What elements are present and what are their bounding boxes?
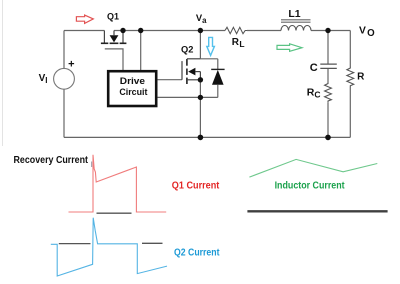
resistor RL: [225, 27, 247, 33]
wire C to RC: [327, 69, 329, 82]
svg-text:C: C: [310, 62, 318, 74]
node L1 out dot: [325, 28, 330, 33]
waveform Q2 current blue: [51, 218, 167, 276]
zero line Q2 right: [142, 242, 163, 244]
wire RC to rail: [327, 102, 329, 137]
svg-text:Inductor Current: Inductor Current: [275, 181, 346, 192]
waveform Q1 current red: [69, 155, 167, 212]
transistor Q2: [157, 59, 200, 84]
svg-text:VO: VO: [359, 26, 375, 40]
node drive tap dot: [138, 28, 143, 33]
wire drive vcc tap: [140, 31, 142, 71]
voltage source VI: [54, 68, 75, 89]
wire C branch upper: [327, 31, 329, 64]
svg-text:Q1 Current: Q1 Current: [172, 181, 220, 192]
diode D1: [211, 59, 224, 98]
wire top rail drain side: [114, 30, 225, 32]
inductor zero line: [247, 210, 387, 212]
waveform inductor current green: [249, 159, 377, 177]
svg-text:Drive: Drive: [120, 76, 145, 87]
svg-text:L1: L1: [288, 8, 300, 20]
wire L1 to corner: [311, 30, 350, 32]
faint page edge line: [2, 0, 4, 146]
zero line Q2 left: [59, 243, 91, 245]
svg-text:VI: VI: [39, 73, 48, 85]
wire bottom rail: [64, 136, 350, 138]
svg-text:+: +: [68, 59, 74, 71]
current arrow cyan: [207, 37, 215, 55]
svg-text:R: R: [357, 72, 365, 83]
svg-text:Q1: Q1: [107, 12, 119, 22]
capacitor C: [320, 64, 337, 68]
wire diode branch top: [200, 58, 217, 60]
node bottom mid dot: [198, 135, 204, 141]
node bottom C dot: [325, 135, 331, 141]
drive circuit U1: [108, 71, 156, 106]
wire left branch upper: [63, 31, 65, 69]
inductor L1: [281, 20, 311, 31]
wire right branch R lower: [349, 87, 351, 137]
node return dot: [198, 95, 203, 100]
zero line under Q1 ramp: [97, 212, 132, 214]
svg-text:Va: Va: [196, 12, 207, 25]
wire diode branch bottom: [200, 96, 217, 98]
current arrow red: [76, 15, 93, 23]
recovery axis tick: [91, 162, 93, 168]
wire Va to Q2 drain: [199, 31, 201, 59]
wire Q2 source down: [199, 80, 201, 138]
current arrow green: [277, 44, 302, 52]
svg-text:RL: RL: [232, 37, 245, 49]
node Q2 source dot: [198, 77, 203, 82]
node Va dot: [198, 28, 203, 33]
wire left branch lower: [63, 89, 65, 137]
wire rail RL to L1: [247, 30, 281, 32]
wire right branch R upper: [349, 31, 351, 67]
svg-text:RC: RC: [307, 86, 321, 99]
transistor Q1: [101, 31, 127, 71]
node Q1 drain dot: [120, 28, 125, 33]
resistor R: [347, 67, 354, 88]
resistor RC: [325, 82, 332, 102]
wire drive return: [157, 96, 200, 98]
svg-text:Recovery Current: Recovery Current: [14, 155, 89, 166]
svg-text:Circuit: Circuit: [119, 87, 148, 98]
svg-text:Q2: Q2: [181, 44, 193, 54]
svg-text:Q2 Current: Q2 Current: [174, 248, 220, 259]
wire top rail source side: [64, 30, 104, 32]
